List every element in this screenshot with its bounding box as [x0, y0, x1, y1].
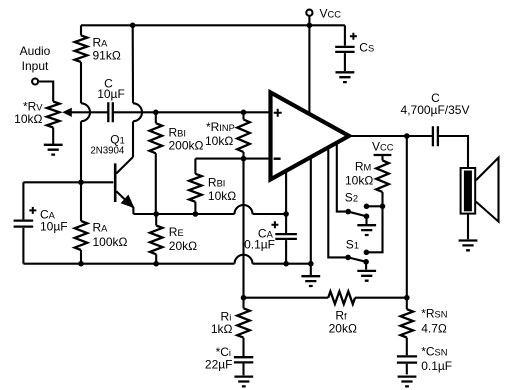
wire cap C to op-amp + input [114, 111, 271, 113]
node RA100k bottom [78, 261, 84, 267]
wire feedback row left [244, 297, 329, 299]
wire op-amp output row [349, 135, 432, 137]
node ground junction [308, 261, 314, 267]
resistor RA 100k [80, 182, 82, 221]
capacitor CSN 0.1uF [397, 356, 417, 362]
node collector-rail junction [130, 23, 136, 29]
node output junction [404, 133, 410, 139]
wire RA91k down to base node, hop over signal wire [80, 62, 82, 103]
svg-text:RM: RM [355, 159, 371, 173]
wire RM bottom down to S1 contact [366, 192, 382, 252]
capacitor CS [344, 25, 346, 45]
node RM-S2 junction [380, 204, 386, 210]
svg-text:RE: RE [169, 225, 184, 239]
svg-text:Q1: Q1 [110, 132, 125, 146]
resistor RM 10k [376, 161, 389, 193]
svg-text:20kΩ: 20kΩ [329, 321, 357, 335]
capacitor Ci 22uF [234, 357, 253, 362]
op-amp U1 [271, 92, 350, 179]
capacitor CA 10uF [22, 182, 24, 219]
ground below CS [336, 72, 355, 82]
resistor Rf 20k [328, 291, 355, 304]
resistor RINP 10k [242, 112, 244, 119]
svg-text:Rf: Rf [335, 308, 347, 322]
svg-text:10kΩ: 10kΩ [345, 173, 373, 187]
node RINP top [241, 110, 247, 116]
node RE top [153, 211, 159, 217]
capacitor C 4700uF [433, 126, 438, 146]
wire S2 pin down [337, 143, 348, 212]
emitter arrow [121, 195, 135, 209]
ground op-amp [301, 276, 320, 286]
svg-text:S1: S1 [346, 237, 359, 251]
svg-text:10kΩ: 10kΩ [14, 112, 42, 126]
svg-text:Input: Input [22, 59, 49, 73]
svg-text:VCC: VCC [372, 139, 394, 153]
wire S1 pin down [328, 148, 348, 258]
svg-text:10kΩ: 10kΩ [208, 189, 236, 203]
svg-text:*RINP: *RINP [206, 120, 235, 134]
wire feedback node vertical [242, 159, 244, 298]
wire emitter row with hop over feedback line [133, 213, 234, 215]
resistor Ri 1k [242, 298, 244, 309]
wire collector to rail, hop over signal wire [132, 25, 134, 103]
resistor RBI 10k [194, 159, 196, 174]
node Rf-Rsn junction [404, 295, 410, 301]
svg-text:0.1µF: 0.1µF [421, 359, 452, 373]
speaker LS1 [461, 168, 476, 214]
svg-text:10µF: 10µF [40, 220, 68, 234]
svg-text:0.1µF: 0.1µF [244, 238, 275, 252]
svg-text:2N3904: 2N3904 [90, 145, 125, 156]
ground S2 [357, 225, 376, 235]
svg-text:*CSN: *CSN [421, 344, 447, 358]
wire pot to ground [52, 128, 54, 145]
ground below CSN [398, 377, 417, 387]
potentiometer RV 10k [47, 102, 60, 128]
wire input to pot [38, 82, 53, 102]
node bypass pin junction [283, 211, 289, 217]
wire gnd pin down [310, 158, 312, 264]
wire bottom row with hop over feedback line [23, 263, 234, 265]
wire base row [23, 181, 113, 183]
wire bypass pin down [285, 171, 287, 233]
resistor RBI 200k [155, 112, 157, 123]
emitter diagonal [116, 191, 133, 214]
node RE bottom [153, 261, 159, 267]
svg-text:4.7Ω: 4.7Ω [421, 321, 447, 335]
wiper arrow [62, 108, 72, 117]
svg-text:RA: RA [93, 35, 109, 49]
VCC terminal [306, 10, 312, 16]
ground below Ci [234, 377, 253, 387]
ground S1 [357, 271, 376, 281]
svg-text:20kΩ: 20kΩ [169, 239, 197, 253]
svg-text:100kΩ: 100kΩ [93, 235, 128, 249]
svg-text:RBI: RBI [208, 175, 225, 189]
node audio input terminal [32, 79, 38, 85]
wire VCC to op-amp top [308, 25, 310, 113]
svg-text:91kΩ: 91kΩ [93, 49, 121, 63]
transistor Q1 2N3904 [114, 163, 117, 202]
node RINP bottom / feedback [241, 156, 247, 162]
svg-text:10kΩ: 10kΩ [205, 134, 233, 148]
node RBI200k top [153, 110, 159, 116]
ground below RV [44, 145, 63, 155]
ground below speaker [459, 241, 478, 251]
svg-text:*RSN: *RSN [421, 307, 447, 321]
node CA0.1 bottom [283, 261, 289, 267]
capacitor CA 0.1uF [275, 234, 297, 239]
svg-text:CS: CS [359, 41, 374, 55]
node RBI10k bottom [193, 211, 199, 217]
node base junction [78, 180, 84, 186]
capacitor C 10uF [108, 102, 113, 122]
wire top supply rail [81, 24, 345, 26]
wire inverting input row [195, 158, 270, 160]
svg-text:200kΩ: 200kΩ [169, 138, 204, 152]
svg-text:10µF: 10µF [97, 87, 125, 101]
resistor RE 20k [155, 214, 157, 226]
resistor RSN 4.7 [406, 298, 408, 310]
svg-text:Audio: Audio [20, 44, 51, 58]
node VCC-rail junction [307, 23, 313, 29]
svg-text:S2: S2 [345, 190, 358, 204]
wire wiper to coupling cap C [71, 111, 108, 113]
svg-text:4,700µF/35V: 4,700µF/35V [401, 103, 470, 117]
svg-text:1kΩ: 1kΩ [211, 322, 233, 336]
resistor RA 91k [75, 35, 88, 62]
svg-text:VCC: VCC [320, 7, 342, 21]
collector diagonal [116, 157, 133, 174]
svg-text:22µF: 22µF [205, 358, 233, 372]
wire output down to feedback row [406, 136, 408, 298]
svg-text:RA: RA [93, 221, 109, 235]
node Ri junction [241, 295, 247, 301]
